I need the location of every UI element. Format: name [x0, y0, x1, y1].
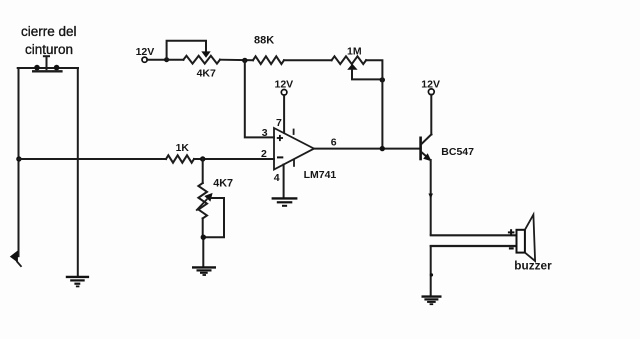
wiper arrow of RV2	[196, 193, 212, 211]
wire: 12V down to collector	[430, 95, 432, 135]
wiper arrow of RV1 (points down)	[201, 51, 210, 57]
terminal: 12V op-amp open circle	[281, 90, 287, 96]
wire: 12V to junction	[147, 59, 166, 61]
wire: buzzer + lead	[430, 234, 517, 236]
svg-text:3: 3	[262, 127, 268, 139]
svg-text:4: 4	[274, 172, 280, 184]
wire: RV2 bottom to ground	[202, 218, 204, 237]
arrow terminal at bottom of left wire	[10, 250, 22, 266]
plus label at buzzer	[508, 229, 515, 235]
node: junction dot on left rail	[16, 156, 21, 161]
wire: RV1 to node	[220, 59, 253, 62]
emitter current arrow	[428, 194, 433, 199]
wiper arrow of RV3 (points up)	[347, 64, 357, 70]
node: junction dot on output	[380, 146, 385, 151]
wire: buzzer - down to ground	[430, 246, 432, 296]
wire: RV3 wiper loop to output node	[352, 70, 382, 80]
svg-text:LM741: LM741	[304, 169, 337, 181]
potentiometer RV3 1M	[332, 56, 367, 64]
wire: switch right lead down to ground	[77, 68, 79, 276]
wire: pin 4 to ground	[283, 165, 285, 198]
svg-text:6: 6	[331, 137, 337, 149]
node: junction dot at RV2 bottom	[201, 235, 206, 240]
resistor R1 1K	[166, 155, 194, 162]
svg-text:cierre del: cierre del	[21, 24, 77, 39]
pin stub tick (bottom)	[293, 159, 295, 166]
node: junction dot left of 4K7 preset	[164, 57, 169, 62]
pin stub tick (top)	[293, 129, 295, 135]
node: junction dot at 88K left	[242, 58, 247, 63]
node: junction dot at 1K / 4K7	[200, 156, 205, 161]
node: small dot on ground wire	[430, 273, 433, 276]
wire: 1K to op-amp pin 2	[194, 158, 274, 160]
wire: loop over RV1 to wiper	[167, 41, 206, 60]
wire: middle rail from switch to 1K	[19, 158, 166, 160]
minus sign (pin 2 input)	[277, 156, 283, 158]
transistor Q1 BC547	[421, 134, 432, 161]
svg-text:cinturon: cinturon	[25, 42, 73, 57]
wire: junction down to 4K7 preset	[202, 159, 204, 183]
svg-text:2: 2	[261, 148, 267, 160]
svg-text:1K: 1K	[176, 143, 190, 154]
potentiometer RV2 4K7 (vertical)	[198, 183, 207, 218]
svg-text:88K: 88K	[254, 34, 274, 46]
svg-text:1M: 1M	[347, 46, 362, 58]
svg-text:7: 7	[276, 117, 282, 129]
terminal: 12V left open circle	[142, 57, 147, 62]
plus sign (pin 3 input)	[277, 135, 283, 141]
terminal: 12V collector open circle	[428, 89, 434, 95]
svg-text:12V: 12V	[275, 78, 294, 90]
wire: dot to RV1	[167, 59, 184, 61]
ground (below RV2)	[192, 267, 216, 275]
op-amp U1 LM741 triangle	[274, 128, 314, 170]
resistor R2 88K	[253, 56, 284, 64]
wire: buzzer - lead	[430, 245, 517, 247]
svg-text:4K7: 4K7	[197, 68, 216, 80]
minus label at buzzer	[509, 247, 514, 249]
wire: 88K to 1M	[284, 59, 332, 61]
wire: emitter down to buzzer +	[430, 160, 432, 234]
wire: switch left lead down	[18, 68, 20, 256]
wire: RV3 right end down to output	[366, 60, 382, 148]
wire: supply to pin 7	[283, 95, 285, 133]
node: junction dot at RV3 wiper loop	[380, 77, 385, 82]
ground (op-amp pin 4)	[272, 198, 298, 205]
wire: pin 6 output to transistor base	[314, 148, 421, 150]
buzzer LS1 (speaker symbol)	[517, 215, 536, 261]
potentiometer RV1 4K7 (top)	[183, 56, 220, 64]
ground (buzzer return)	[422, 297, 442, 305]
svg-text:BC547: BC547	[441, 146, 474, 158]
wire: feedback rail down to pin 3	[245, 60, 274, 137]
ground (below switch)	[66, 277, 89, 287]
wire: RV2 wiper loop to bottom	[203, 198, 224, 237]
pushbutton switch S1 (seatbelt switch)	[18, 56, 78, 71]
svg-text:buzzer: buzzer	[514, 259, 552, 273]
svg-text:12V: 12V	[136, 46, 155, 58]
svg-text:4K7: 4K7	[213, 178, 233, 190]
